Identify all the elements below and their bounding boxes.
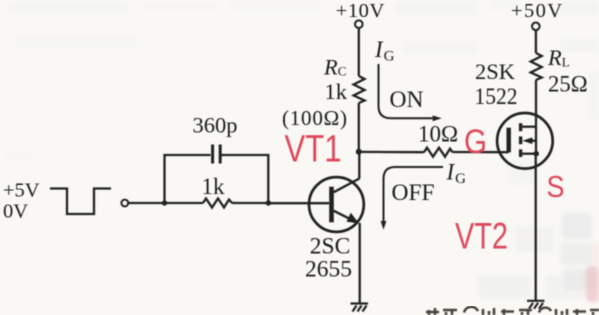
svg-text:0V: 0V: [3, 200, 28, 222]
ground (VT2 source): [527, 301, 545, 309]
MOSFET VT2: [497, 113, 553, 169]
resistor R3 10Ω: [424, 148, 453, 157]
input terminal: [121, 200, 128, 207]
svg-text:10Ω: 10Ω: [418, 121, 458, 146]
svg-text:ON: ON: [390, 87, 424, 113]
current arrow IG OFF: [381, 167, 443, 230]
wire +50V terminal to RL: [535, 30, 537, 53]
svg-text:+5V: +5V: [3, 179, 40, 201]
svg-text:IG: IG: [446, 160, 467, 188]
junction node C: [266, 200, 271, 205]
current arrow IG ON: [379, 64, 442, 121]
wire RC to node A: [358, 103, 360, 152]
wire node C to base VT1: [268, 202, 329, 204]
wire node A to R3: [359, 151, 424, 154]
wire node B to R1: [165, 202, 204, 204]
svg-text:+50V: +50V: [511, 0, 562, 22]
svg-text:OFF: OFF: [392, 180, 435, 206]
wire RL to drain VT2: [535, 80, 537, 154]
terminal +50V: [532, 23, 540, 31]
svg-text:1k: 1k: [202, 174, 226, 199]
wire emitter VT1 to ground: [359, 223, 361, 303]
resistor RC: [354, 76, 365, 103]
svg-text:IG: IG: [374, 37, 395, 65]
svg-text:VT1: VT1: [285, 128, 342, 171]
wire input terminal to node B: [128, 202, 164, 204]
input pulse waveform: [50, 189, 111, 215]
ground (VT1 emitter): [351, 304, 369, 312]
transistor VT1: [309, 177, 364, 232]
wire node A to collector VT1: [358, 152, 360, 179]
svg-text:S: S: [547, 171, 565, 204]
wire R3 to gate VT2: [453, 151, 509, 153]
svg-text:2655: 2655: [305, 257, 352, 283]
svg-text:1k: 1k: [325, 79, 348, 104]
svg-text:2SK: 2SK: [475, 59, 516, 84]
capacitor C1 360p: [213, 145, 221, 164]
svg-text:(100Ω): (100Ω): [282, 106, 347, 130]
svg-text:360p: 360p: [193, 113, 238, 138]
svg-text:+10V: +10V: [336, 0, 385, 22]
svg-text:25Ω: 25Ω: [548, 72, 588, 97]
svg-text:VT2: VT2: [455, 215, 508, 257]
junction node B: [162, 200, 167, 205]
svg-text:1522: 1522: [475, 84, 518, 110]
wire R1 to node C: [232, 202, 268, 204]
wire source VT2 to ground: [535, 154, 537, 300]
wire +10V terminal to RC: [358, 28, 360, 76]
wire C1 to node C riser: [221, 155, 268, 203]
wire node B riser to C1: [165, 155, 211, 203]
junction node A: [356, 149, 362, 155]
svg-text:G: G: [464, 123, 487, 161]
terminal +10V: [355, 20, 363, 28]
svg-text:RC: RC: [323, 54, 346, 79]
resistor RL: [531, 53, 542, 80]
resistor R1 1k: [203, 199, 232, 208]
